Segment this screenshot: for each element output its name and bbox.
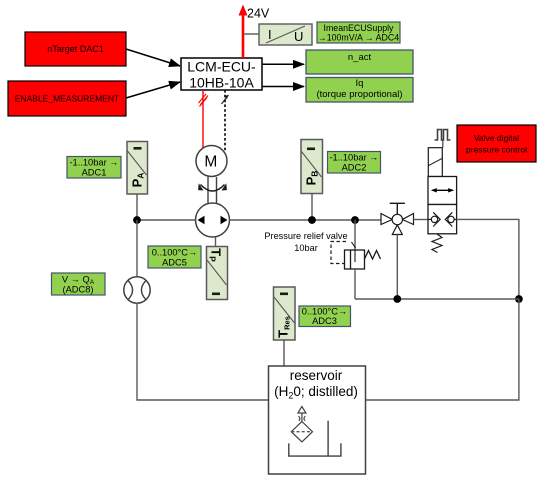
wire to reservoir right <box>366 299 519 400</box>
svg-text:Valve digital: Valve digital <box>474 133 519 143</box>
svg-text:LCM-ECU-: LCM-ECU- <box>187 59 256 75</box>
label box ADC5 <box>148 246 201 268</box>
tank symbol <box>289 421 341 456</box>
svg-text:10HB-10A: 10HB-10A <box>189 75 254 91</box>
wire pump to TP <box>215 237 217 247</box>
motor M1 <box>196 146 227 177</box>
wire arrow ECU to n_act <box>262 63 304 65</box>
svg-text:-1..10bar →: -1..10bar → <box>329 153 378 163</box>
flow meter FM1 <box>124 277 150 303</box>
pump P1 <box>196 203 230 237</box>
svg-text:-1..10bar →: -1..10bar → <box>69 158 118 168</box>
motor power cable (red) <box>199 90 209 148</box>
pulse signal icon <box>435 130 451 141</box>
svg-text:→100mV/A → ADC4: →100mV/A → ADC4 <box>318 33 399 43</box>
current sensor I/U <box>259 24 312 45</box>
svg-text:10bar: 10bar <box>294 243 318 253</box>
svg-text:U: U <box>294 29 303 44</box>
wire down to relief valve <box>354 220 356 250</box>
label pressure relief valve <box>264 231 347 253</box>
junction node D <box>515 295 523 303</box>
svg-text:0..100°C→: 0..100°C→ <box>302 307 348 317</box>
wire arrow nTarget to ECU <box>126 49 180 66</box>
svg-text:ENABLE_MEASUREMENT: ENABLE_MEASUREMENT <box>15 94 119 104</box>
wire TRes to reservoir <box>283 340 285 366</box>
wire flow meter to reservoir <box>137 303 269 400</box>
24V supply arrow <box>239 5 270 59</box>
label box ADC8 <box>52 273 106 295</box>
encoder cable (dashed) <box>222 90 229 152</box>
svg-text:0..100°C→: 0..100°C→ <box>152 248 198 258</box>
svg-text:pressure control: pressure control <box>466 145 527 155</box>
throttle valve V2 <box>381 203 414 234</box>
svg-text:nTarget DAC1: nTarget DAC1 <box>47 44 104 54</box>
junction node C (relief branch) <box>351 216 359 224</box>
svg-text:Pressure relief valve: Pressure relief valve <box>264 231 347 241</box>
svg-text:ImeanECUSupply: ImeanECUSupply <box>324 23 395 33</box>
input box ENABLE_MEASUREMENT <box>8 81 126 116</box>
svg-text:reservoir: reservoir <box>290 368 343 383</box>
solenoid valve V3 (digital pressure control) <box>428 140 457 253</box>
junction node B <box>308 216 316 224</box>
svg-text:ADC3: ADC3 <box>312 316 337 326</box>
temperature sensor TP <box>207 247 228 300</box>
pressure relief valve V1 <box>331 242 381 270</box>
pressure sensor PA <box>127 142 148 195</box>
wire main line right of pump <box>230 219 382 221</box>
label box Valve digital pressure control <box>457 125 536 162</box>
wire PA to main line <box>136 194 138 220</box>
wire junction A down to flow meter <box>136 220 138 277</box>
svg-text:I: I <box>268 27 272 42</box>
filter F1 <box>291 407 312 442</box>
controller U1 LCM-ECU-10HB-10A <box>181 58 262 91</box>
label ImeanECUSupply ADC4 <box>317 22 400 43</box>
output box n_act <box>306 50 413 74</box>
svg-text:n_act: n_act <box>348 52 372 63</box>
wire throttle valve to valve body <box>414 219 429 221</box>
wire PB to main line <box>311 194 313 221</box>
svg-text:Iq: Iq <box>356 78 364 89</box>
reservoir T1 <box>269 366 366 474</box>
label box ADC1 <box>67 157 121 179</box>
wire main line left of pump <box>137 219 196 221</box>
wire return line <box>355 298 519 300</box>
wire to I/U converter <box>243 33 259 35</box>
wire valve output to right <box>457 219 519 299</box>
junction node A <box>133 216 141 224</box>
wire throttle drain down <box>396 235 398 300</box>
wire arrow ECU to Iq <box>262 86 304 88</box>
svg-text:ADC2: ADC2 <box>342 163 367 173</box>
wire relief valve drain <box>354 269 356 299</box>
svg-text:(H20; distilled): (H20; distilled) <box>274 384 358 401</box>
label box ADC3 <box>299 306 351 327</box>
svg-text:ADC1: ADC1 <box>82 168 107 178</box>
svg-text:(torque proportional): (torque proportional) <box>316 89 402 100</box>
shaft with rotation arrows <box>198 177 227 204</box>
label box ADC2 <box>328 152 381 174</box>
output box Iq <box>306 78 413 103</box>
temperature sensor TRes <box>274 287 296 340</box>
svg-text:M: M <box>204 154 217 171</box>
svg-text:24V: 24V <box>247 7 270 21</box>
junction node E <box>393 295 401 303</box>
pressure sensor PB <box>301 140 323 194</box>
svg-text:(ADC8): (ADC8) <box>63 285 94 295</box>
wire arrow ENABLE to ECU <box>126 82 180 98</box>
input box nTarget DAC1 <box>25 32 126 66</box>
svg-text:ADC5: ADC5 <box>162 258 187 268</box>
